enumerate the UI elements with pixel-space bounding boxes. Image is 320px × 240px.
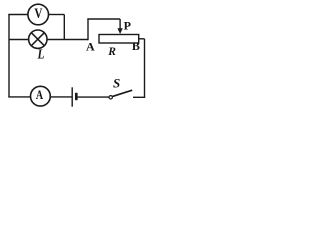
rheostat R: body rectangle [99, 35, 139, 44]
battery: short thick negative plate [75, 93, 78, 100]
battery: long thin positive plate [71, 87, 73, 106]
switch S: pivot circle [109, 96, 112, 99]
svg-text:P: P [124, 19, 131, 33]
wire: lamp left lead from left bus [9, 39, 28, 41]
svg-text:A: A [36, 89, 44, 102]
wire: top rail to slider arrow [87, 18, 120, 20]
wire: right vertical bus down to switch [144, 39, 146, 98]
svg-text:A: A [86, 40, 95, 54]
voltmeter V: circle [28, 4, 49, 25]
wire: bottom-left horizontal from left bus to ammeter [8, 96, 30, 98]
slider arrowhead [117, 28, 122, 34]
lamp L: circle [29, 30, 47, 48]
svg-text:S: S [113, 76, 120, 91]
wire: rheostat right stub [139, 38, 145, 40]
wire: left vertical bus from voltmeter corner to bottom-left corner [8, 15, 10, 97]
wire: step vertical up to top rail [87, 19, 89, 40]
wire: voltmeter left lead (horizontal) [8, 14, 27, 16]
lamp L: cross diagonal 2 [31, 33, 44, 46]
wire: battery to switch pivot [77, 96, 109, 98]
wire: voltmeter right lead (horizontal) [49, 14, 65, 16]
svg-text:L: L [37, 47, 45, 62]
switch S: lever blade [112, 90, 132, 96]
svg-text:R: R [107, 46, 116, 58]
wire: lamp right lead to step corner [47, 39, 88, 41]
svg-text:V: V [34, 4, 42, 21]
svg-text:B: B [132, 39, 140, 53]
wire: bottom-right horizontal to switch contact [133, 96, 145, 98]
ammeter A: circle [31, 86, 51, 106]
lamp L: cross diagonal 1 [31, 33, 44, 46]
slider arrow shaft P [119, 19, 121, 29]
wire: voltmeter right vertical drop to lamp node [63, 15, 65, 40]
wire: ammeter to battery [51, 96, 72, 98]
